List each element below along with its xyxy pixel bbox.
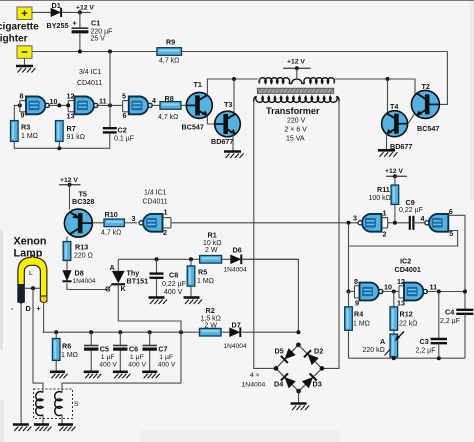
- label 1N4004 (bridge): [242, 382, 266, 389]
- svg-text:D3: D3: [313, 380, 322, 389]
- label D3: [313, 380, 322, 389]
- wire R11 bottom: [394, 204, 396, 222]
- label R13: [75, 242, 88, 251]
- terminal plus (cigarette lighter +): [17, 7, 32, 20]
- svg-text:R12: R12: [400, 310, 413, 319]
- svg-text:BD677: BD677: [211, 137, 233, 146]
- wire long feedback to pin3: [171, 222, 358, 224]
- label 4x: [250, 372, 260, 379]
- capacitor C2: [103, 128, 117, 132]
- svg-text:2 W: 2 W: [205, 323, 218, 330]
- svg-text:R8: R8: [165, 94, 174, 103]
- nand gate IC1b (12,13-11): [75, 97, 99, 115]
- xenon lamp right electrode tip: [40, 296, 47, 303]
- wire R8 to T1 base: [181, 104, 186, 106]
- wire primary right lead: [333, 79, 335, 84]
- node bridge right: [320, 366, 325, 371]
- resistor R6: [52, 339, 60, 361]
- svg-text:220 V: 220 V: [287, 118, 306, 125]
- svg-text:+12 V: +12 V: [76, 5, 94, 12]
- svg-text:C6: C6: [129, 344, 138, 353]
- capacitor C8: [150, 274, 164, 278]
- node D6 D7 join: [296, 330, 300, 334]
- label C2: [118, 126, 127, 135]
- wire plus terminal to D1: [32, 11, 51, 13]
- label C4: [445, 308, 454, 317]
- capacitor C3 lead bottom: [438, 343, 440, 358]
- label R4 value: [353, 320, 370, 327]
- transformer secondary left lead: [254, 96, 257, 101]
- wire R4 bottom: [348, 330, 350, 358]
- nor gate IC2c (8,9-10): [360, 283, 384, 301]
- svg-text:4,7 kΩ: 4,7 kΩ: [158, 114, 178, 121]
- svg-text:1/4 IC1: 1/4 IC1: [144, 190, 167, 197]
- svg-text:220 kΩ: 220 kΩ: [363, 347, 385, 354]
- capacitor C5 lead top: [90, 332, 92, 345]
- power +12V (R11): [385, 168, 407, 185]
- diode D1: [51, 8, 62, 17]
- label C2 value: [114, 136, 134, 143]
- label CD4011 (IC1): [77, 80, 102, 87]
- label BY255: [47, 21, 69, 30]
- wire trigger primary to ground: [42, 415, 44, 425]
- ground (T3 emitter): [224, 152, 244, 159]
- svg-text:1 MΩ: 1 MΩ: [197, 278, 214, 285]
- node rail to C2 branch: [108, 50, 112, 54]
- nand gate IC1d (1,2-3) flipped: [139, 214, 163, 232]
- capacitor C1: [72, 20, 89, 32]
- transistor T3 BD677: [215, 111, 241, 137]
- label R1: [208, 231, 217, 240]
- node K-line junction: [179, 330, 183, 334]
- pin 3 label (IC1d): [132, 214, 136, 223]
- label C1: [91, 18, 100, 27]
- node pin11 C2 branch: [108, 103, 112, 107]
- wire pin6 right and down: [448, 215, 465, 309]
- svg-text:25 V: 25 V: [91, 36, 106, 43]
- svg-text:+: +: [73, 20, 77, 27]
- node R12 top: [392, 290, 396, 294]
- pin 11 label: [99, 97, 107, 106]
- label C6: [129, 344, 138, 353]
- transistor T2 BC547 (mirrored): [411, 90, 439, 118]
- svg-text:D7: D7: [232, 320, 241, 329]
- label A (thyristor anode): [110, 263, 115, 272]
- capacitor C6 lead bottom: [119, 351, 121, 372]
- wire primary right to T2 collector: [334, 79, 415, 95]
- ground (lamp minus): [13, 425, 32, 432]
- node bridge bottom: [296, 389, 301, 394]
- label R6: [62, 342, 71, 351]
- wire pot bottom: [393, 357, 395, 358]
- wire T5 base to R10: [92, 222, 104, 224]
- svg-text:10 kΩ: 10 kΩ: [203, 240, 221, 247]
- nand gate IC1c (5,6-4): [129, 97, 152, 115]
- wire R10 to gate IV: [124, 222, 137, 224]
- trigger transformer primary coil: [36, 392, 43, 416]
- pin 8 label (IC2c): [354, 277, 358, 286]
- resistor R2: [200, 328, 222, 336]
- label BD677 (T3): [211, 137, 233, 146]
- node pot bottom rail: [392, 356, 396, 360]
- wire T1 collector up: [207, 79, 257, 95]
- wire T2 emitter to T4 base: [408, 114, 415, 123]
- label S (trigger transformer): [74, 401, 79, 408]
- svg-text:100 kΩ: 100 kΩ: [369, 195, 391, 202]
- svg-text:9: 9: [21, 110, 25, 119]
- node C3 top: [437, 290, 441, 294]
- label C9: [406, 198, 415, 207]
- bracket IC1d pins 1 2: [163, 218, 171, 228]
- svg-text:220 Ω: 220 Ω: [74, 253, 93, 260]
- label D (lamp trigger): [26, 304, 31, 313]
- pin 6 label (IC2b): [449, 207, 453, 216]
- capacitor C1 lead top: [79, 12, 81, 28]
- ground (minus terminal): [16, 66, 36, 73]
- svg-text:T1: T1: [194, 80, 202, 89]
- resistor R8: [160, 102, 181, 110]
- pin 4 label: [152, 96, 156, 105]
- ground (C8): [149, 298, 168, 305]
- label CD4011 (IC1d): [143, 199, 168, 206]
- border frame top: [0, 0, 474, 2]
- node T3 collector: [232, 77, 236, 81]
- svg-text:C1: C1: [91, 18, 100, 27]
- power +12V (transformer tap): [283, 59, 311, 80]
- label R2: [206, 306, 215, 315]
- svg-text:1 MΩ: 1 MΩ: [61, 352, 78, 359]
- svg-text:8: 8: [354, 277, 358, 286]
- node gate C input: [347, 290, 351, 294]
- resistor R4 lead top: [348, 292, 350, 307]
- resistor R5: [187, 266, 195, 286]
- resistor R11: [391, 185, 399, 204]
- svg-text:4,7 kΩ: 4,7 kΩ: [101, 230, 121, 237]
- pin 9 label: [21, 110, 25, 119]
- svg-text:11: 11: [430, 283, 438, 292]
- svg-text:R11: R11: [377, 185, 390, 194]
- svg-text:1 µF: 1 µF: [130, 354, 144, 361]
- svg-text:G: G: [105, 285, 111, 294]
- svg-text:2 × 6 V: 2 × 6 V: [285, 127, 308, 134]
- node C3 bottom rail: [437, 356, 441, 360]
- label R8: [165, 94, 174, 103]
- svg-text:Transformer: Transformer: [266, 106, 320, 116]
- svg-text:D1: D1: [52, 1, 61, 10]
- label R11: [377, 185, 390, 194]
- svg-text:R6: R6: [62, 342, 71, 351]
- svg-text:BC328: BC328: [72, 197, 94, 206]
- svg-text:1: 1: [164, 208, 168, 217]
- bridge edge bottom-right: [299, 368, 322, 391]
- svg-text:0,22 µF: 0,22 µF: [399, 207, 423, 214]
- svg-text:1 µF: 1 µF: [101, 354, 115, 361]
- ground (R5): [184, 298, 203, 305]
- svg-text:1 µF: 1 µF: [159, 354, 173, 361]
- wire minus rail: [32, 51, 157, 53]
- wire gate II out to gate III: [96, 104, 122, 106]
- svg-text:0,22 µF: 0,22 µF: [162, 281, 186, 288]
- wire R2 to D7: [221, 331, 229, 333]
- label Transformer: [266, 106, 320, 116]
- label Lamp: [14, 248, 43, 260]
- input bracket gate III pins 5 6: [123, 101, 129, 112]
- wire R9 to right corner: [182, 51, 448, 53]
- svg-text:400 V: 400 V: [128, 361, 146, 368]
- pin 2 label (IC1d): [163, 228, 167, 237]
- node pin3 junction: [347, 221, 351, 225]
- pin 12 label: [67, 92, 75, 101]
- capacitor C5: [84, 346, 98, 350]
- capacitor C8 lead top: [156, 259, 158, 273]
- wire R5 top lead: [190, 259, 192, 266]
- wire minus terminal stem: [24, 58, 26, 66]
- label R12 value: [399, 320, 417, 327]
- label 3/4 IC1: [79, 69, 102, 76]
- pin 10 label: [50, 97, 58, 106]
- wire R3 bottom rail: [14, 134, 110, 149]
- wire D8 to thyristor gate: [67, 283, 112, 289]
- label BC547 (T1): [182, 123, 204, 132]
- svg-text:400 V: 400 V: [158, 361, 176, 368]
- svg-text:BC547: BC547: [182, 123, 204, 132]
- node C6 top: [118, 330, 122, 334]
- svg-text:3: 3: [353, 214, 357, 223]
- bridge diode D3: [302, 373, 317, 388]
- wire gate D out right: [426, 291, 465, 293]
- label R7 value: [67, 134, 85, 141]
- svg-text:1: 1: [383, 209, 387, 218]
- trigger transformer box: [34, 389, 73, 419]
- svg-text:12: 12: [67, 92, 75, 101]
- label minus (lamp): [11, 304, 14, 313]
- label BD677 (T4): [390, 142, 412, 151]
- pin 11 label (IC2d): [430, 283, 438, 292]
- bridge diode D4: [281, 373, 296, 388]
- bridge edge bottom-left: [276, 368, 299, 391]
- transformer primary coil left: [259, 78, 290, 84]
- label C8 value: [162, 281, 186, 296]
- capacitor C4: [456, 310, 473, 314]
- svg-text:+12 V: +12 V: [385, 168, 403, 175]
- label T5: [79, 190, 87, 199]
- svg-text:10: 10: [50, 97, 58, 106]
- svg-text:R3: R3: [21, 122, 30, 131]
- wire bottom right rail: [349, 357, 466, 359]
- node pin6 C4 junction: [463, 290, 467, 294]
- svg-text:A: A: [380, 337, 385, 346]
- label R9 value: [159, 57, 179, 64]
- ground (bridge): [291, 404, 310, 411]
- wire to gate C bracket: [349, 291, 355, 293]
- label T1: [194, 80, 202, 89]
- wire K-line to trigger coil: [62, 383, 181, 392]
- svg-text:T4: T4: [390, 102, 398, 111]
- svg-text:R9: R9: [166, 38, 175, 47]
- label R13 value: [74, 253, 93, 260]
- wire T3 emitter down: [232, 136, 234, 152]
- svg-text:CD4011: CD4011: [77, 80, 102, 87]
- label 2x6 V: [285, 127, 308, 134]
- svg-text:D: D: [26, 304, 31, 313]
- pin 8 label: [20, 92, 24, 101]
- label L (lamp): [29, 270, 33, 277]
- wire T4 emitter down: [386, 134, 388, 151]
- svg-text:9: 9: [355, 299, 359, 308]
- pin 1 label (IC1d): [164, 208, 168, 217]
- bridge diode D5: [281, 348, 296, 363]
- wire primary left lead: [259, 79, 261, 84]
- wire C9 to IC2b: [413, 222, 424, 224]
- label T4: [390, 102, 398, 111]
- wire trigger secondary to ground: [61, 415, 63, 425]
- xenon lamp left electrode: [18, 284, 24, 304]
- transistor T1 BC547: [186, 92, 212, 118]
- wire trigger D lead: [33, 288, 43, 392]
- wire bridge bottom to ground: [298, 391, 300, 403]
- wire C2 branch top: [109, 52, 111, 129]
- label D7 value: [224, 343, 247, 350]
- ground (R6): [50, 372, 68, 379]
- pin 1 label (IC2a): [383, 209, 387, 218]
- label cigarette: [0, 22, 39, 33]
- svg-text:1N4004: 1N4004: [224, 343, 247, 350]
- node R7 bottom: [57, 146, 61, 150]
- svg-text:A: A: [110, 263, 115, 272]
- pin 2 label (IC2a): [383, 230, 387, 239]
- svg-text:T3: T3: [224, 100, 232, 109]
- wire R5 bottom lead: [190, 286, 192, 297]
- svg-text:BC547: BC547: [417, 124, 439, 133]
- node R5 top: [189, 257, 193, 261]
- thyristor Thy BT151: [112, 259, 126, 284]
- svg-text:6: 6: [123, 111, 127, 120]
- label R4: [354, 310, 363, 319]
- wire T4 collector: [387, 79, 389, 113]
- wire K down and over: [118, 284, 181, 383]
- wire pin3 vertical: [348, 223, 350, 292]
- xenon lamp tube: [18, 255, 47, 302]
- svg-text:L: L: [29, 270, 33, 277]
- label 15 VA: [286, 135, 305, 142]
- transformer center tap hump: [289, 79, 305, 83]
- svg-text:0,1 µF: 0,1 µF: [114, 136, 134, 143]
- resistor R7: [56, 121, 64, 142]
- label R10 value: [101, 230, 121, 237]
- label C3 value: [416, 347, 436, 354]
- svg-text:1 MΩ: 1 MΩ: [21, 133, 38, 140]
- label D6: [233, 245, 242, 254]
- label R9: [166, 38, 175, 47]
- svg-text:C3: C3: [420, 337, 429, 346]
- svg-text:1N4004: 1N4004: [73, 278, 96, 285]
- wire gate III out to R8: [151, 104, 160, 106]
- svg-text:2: 2: [163, 228, 167, 237]
- svg-text:15 VA: 15 VA: [286, 135, 305, 142]
- svg-text:D6: D6: [233, 245, 242, 254]
- label C4 value: [440, 318, 460, 325]
- label C5 value: [99, 354, 117, 368]
- label R10: [105, 210, 118, 219]
- transformer secondary right lead: [336, 96, 339, 101]
- resistor R13: [63, 242, 71, 261]
- svg-text:cigarette: cigarette: [0, 22, 39, 33]
- svg-text:D8: D8: [75, 269, 84, 278]
- node R7 top: [57, 103, 61, 107]
- svg-text:5: 5: [122, 92, 126, 101]
- capacitor C3 lead top: [438, 292, 440, 339]
- capacitor C4 lead bottom: [464, 314, 466, 358]
- svg-text:22 kΩ: 22 kΩ: [399, 320, 417, 327]
- pin 13 label: [67, 111, 75, 120]
- resistor R12 lead top: [393, 292, 395, 307]
- nor gate IC2a (1,2-3) flipped: [358, 214, 382, 232]
- capacitor C7 lead bottom: [149, 351, 151, 372]
- wire secondary right lead down: [322, 102, 339, 369]
- ground (C6): [113, 372, 131, 379]
- label R3 value: [21, 133, 38, 140]
- svg-text:10: 10: [384, 283, 392, 292]
- bracket IC2d pins 12 13: [399, 286, 404, 298]
- label lighter: [0, 34, 28, 45]
- label D2: [314, 347, 323, 356]
- svg-text:Xenon: Xenon: [14, 236, 47, 248]
- label 220 V: [287, 118, 306, 125]
- wire gate I out to gate II: [48, 104, 68, 106]
- node C8 top: [155, 257, 159, 261]
- node bridge left: [274, 366, 279, 371]
- diode D7: [229, 327, 240, 337]
- svg-text:400 V: 400 V: [164, 289, 183, 296]
- svg-text:400 V: 400 V: [99, 361, 117, 368]
- svg-text:4: 4: [152, 96, 156, 105]
- node R11 C9: [393, 221, 397, 225]
- svg-text:BY255: BY255: [47, 21, 69, 30]
- node R6 top: [54, 330, 58, 334]
- pin 4 label (IC2b): [421, 214, 425, 223]
- svg-text:CD4001: CD4001: [395, 265, 421, 274]
- label T2: [422, 82, 430, 91]
- label Xenon: [14, 236, 47, 248]
- svg-text:13: 13: [67, 111, 75, 120]
- svg-text:lighter: lighter: [0, 34, 28, 45]
- wire lamp minus lead: [20, 304, 22, 425]
- bridge diode D2: [304, 350, 319, 365]
- label T3: [224, 100, 232, 109]
- capacitor C6: [113, 346, 127, 350]
- node T4 collector branch: [386, 77, 390, 81]
- label C6 value: [128, 354, 146, 368]
- capacitor C8 lead bottom: [156, 278, 158, 298]
- svg-text:C9: C9: [406, 198, 415, 207]
- label BC547 (T2): [417, 124, 439, 133]
- svg-text:3/4 IC1: 3/4 IC1: [79, 69, 102, 76]
- svg-text:2: 2: [383, 230, 387, 239]
- svg-text:4,7 kΩ: 4,7 kΩ: [159, 57, 179, 64]
- svg-text:220 µF: 220 µF: [91, 28, 113, 35]
- svg-text:11: 11: [99, 97, 107, 106]
- lamp trigger band wire: [24, 287, 40, 289]
- svg-text:BT151: BT151: [127, 277, 149, 286]
- bracket IC2a pins 1 2: [382, 218, 388, 228]
- label BT151: [127, 277, 149, 286]
- wire pin5 feedback: [349, 231, 458, 247]
- node gate I input: [18, 103, 22, 107]
- wire D7 to bridge node: [242, 331, 299, 333]
- capacitor C7: [143, 346, 157, 350]
- capacitor C5 lead bottom: [90, 351, 92, 372]
- pin 13 label (IC2d): [397, 299, 405, 308]
